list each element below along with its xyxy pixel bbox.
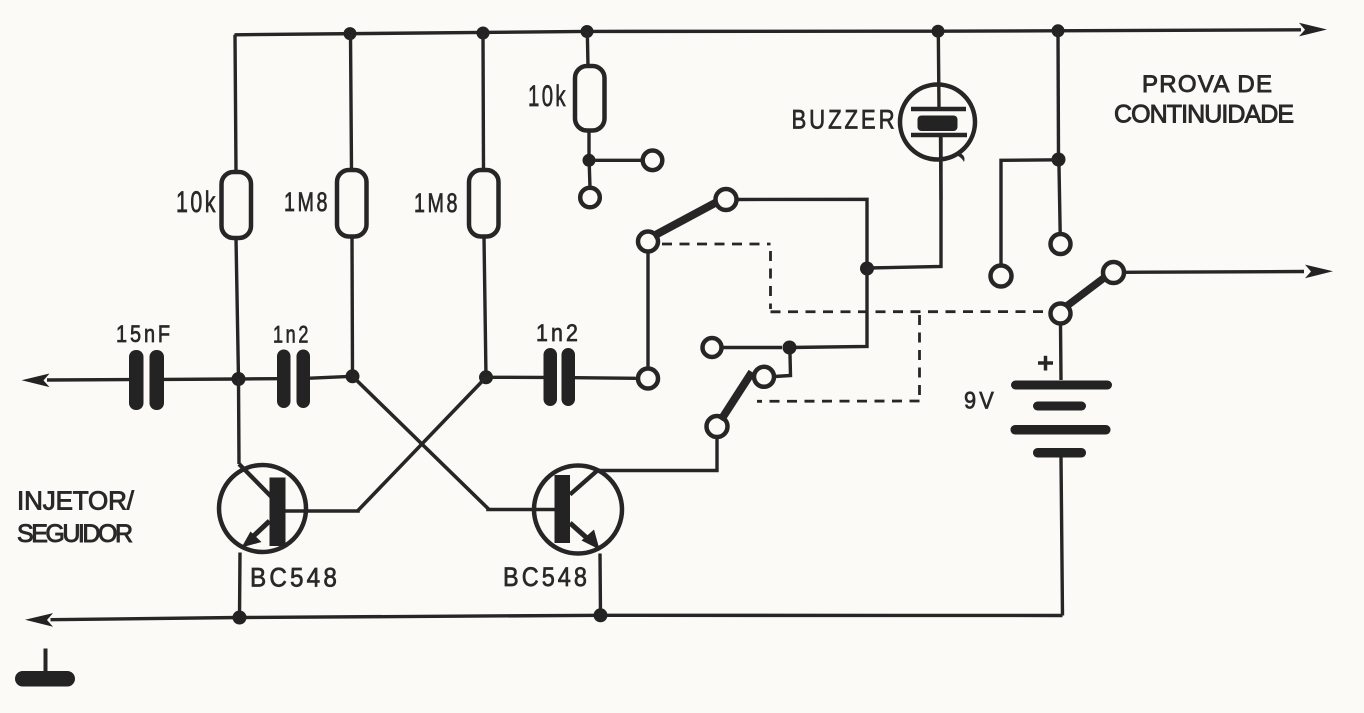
- Q1 emitter lead: [252, 521, 270, 538]
- wire: C2 to node B1: [310, 376, 353, 378]
- wire: top supply rail: [235, 30, 1302, 35]
- junction: top rail / right branch: [1052, 24, 1065, 37]
- wire: buzzer bottom lead: [939, 135, 943, 200]
- wire: Q1 emitter to bottom rail: [238, 553, 242, 618]
- junction: top rail / R4: [581, 25, 594, 38]
- battery B1 9V: [1011, 356, 1113, 458]
- wire: junction to S1a right contact: [595, 159, 643, 162]
- svg-text:15nF: 15nF: [116, 321, 173, 348]
- wire: top rail to R3: [481, 33, 485, 170]
- Q1 body circle: [219, 465, 306, 552]
- switch S1b pole: [707, 416, 728, 437]
- wire: node B2 to C3: [486, 376, 544, 380]
- resistor 10k (left, R1): [222, 172, 252, 238]
- junction: node B2 (R3 / C3 / Q1 base link): [479, 370, 493, 384]
- switch S1b lever: [721, 372, 752, 420]
- junction: node B1 (R2 / C2 / Q2 base link): [346, 369, 360, 383]
- svg-text:CONTINUIDADE: CONTINUIDADE: [1114, 101, 1294, 129]
- Q2 emitter arrowhead: [582, 530, 600, 550]
- wire: S1a pole down to C3 output node: [646, 252, 649, 369]
- svg-text:10k: 10k: [528, 80, 568, 113]
- switch S1c contact (upper): [1051, 234, 1071, 254]
- wire: C3 to output terminal: [575, 376, 638, 380]
- wire: node left and down to S1c left contact: [1001, 160, 1059, 265]
- Q2 body circle: [534, 466, 622, 554]
- wire: R4 to switch S1a contact node: [587, 131, 590, 161]
- switch S1c pole: [1051, 304, 1071, 324]
- arrow: top rail right output: [1299, 23, 1327, 37]
- node: C3 output terminal: [638, 369, 658, 389]
- buzzer piezo element: [918, 116, 958, 132]
- svg-text:1n2: 1n2: [536, 320, 581, 347]
- switch S1c contact (left): [991, 266, 1012, 287]
- junction: bottom rail / Q1 emitter: [233, 611, 247, 625]
- mechanical gang dashed link S1a-S1b-S1c: [662, 244, 1048, 401]
- junction: top rail / R2: [344, 27, 357, 40]
- switch S1c lever: [1066, 278, 1105, 308]
- resistor 1M8 (R2): [337, 170, 367, 237]
- wire: node down to S1c upper contact: [1059, 166, 1060, 234]
- arrow: bottom rail left output: [25, 613, 53, 627]
- battery plus sign: [1038, 361, 1053, 365]
- transistor Q2 BC548: [534, 466, 622, 616]
- switch S1a pole: [638, 232, 658, 252]
- battery plate long 1: [1011, 381, 1112, 390]
- scan speck (decorative ink mark below buzzer): [958, 153, 965, 162]
- wire: top rail to buzzer: [932, 25, 945, 38]
- wire: battery negative to bottom rail: [1061, 458, 1063, 616]
- resistor 1M8 (R3): [469, 170, 499, 237]
- Q1 emitter arrowhead: [242, 532, 262, 548]
- Q2 base bar: [555, 475, 571, 543]
- svg-text:BUZZER: BUZZER: [792, 105, 898, 135]
- battery plate long 2: [1011, 425, 1111, 435]
- junction: bottom rail / Q2 emitter: [594, 608, 608, 622]
- transistor Q1 BC548: [219, 379, 306, 618]
- battery plate short 1: [1033, 402, 1086, 411]
- Q1 collector lead: [239, 464, 272, 497]
- switch S1a lever: [654, 203, 717, 237]
- switch S1a contact (right): [643, 151, 663, 171]
- wire: node down to S1b branch: [790, 269, 868, 348]
- capacitor 1n2 (C3): [544, 348, 576, 406]
- switch S1a throw contact: [716, 189, 737, 210]
- wire: node down to S1b throw contact: [775, 354, 791, 377]
- wire: junction to S1a lower contact: [588, 166, 592, 188]
- svg-text:SEGUIDOR: SEGUIDOR: [17, 520, 133, 548]
- junction: S1b contact node: [783, 341, 797, 355]
- junction: R1 / C1 / C2 / Q1 collector: [232, 372, 246, 386]
- junction: R4 / S1a contacts: [583, 154, 596, 167]
- junction: top rail / R3: [477, 27, 490, 40]
- wire: S1a throw to buzzer branch: [737, 199, 868, 268]
- wire: R1 to capacitor row: [236, 238, 239, 379]
- svg-text:PROVA DE: PROVA DE: [1142, 71, 1272, 98]
- wire: cross coupling node B1 to Q2 base: [353, 376, 555, 509]
- buzzer body circle: [900, 85, 975, 160]
- svg-text:1n2: 1n2: [273, 322, 311, 349]
- buzzer bottom plate: [911, 133, 967, 138]
- wire: R3 to node B2: [484, 237, 486, 378]
- wire: S1c pole to battery positive: [1059, 324, 1063, 381]
- resistor 10k (top middle, R4): [575, 66, 605, 131]
- svg-text:9V: 9V: [964, 388, 997, 415]
- svg-text:10k: 10k: [176, 186, 218, 219]
- wire: S1c throw to probe output: [1124, 270, 1304, 274]
- wire: top rail to R4: [586, 32, 590, 67]
- junction: S1c contacts node: [1052, 153, 1066, 167]
- switch S1b contact (left): [703, 338, 722, 357]
- wire: cross coupling node B2 to Q1 base: [286, 377, 487, 511]
- Q2 collector lead: [570, 470, 599, 495]
- ground: [15, 649, 75, 687]
- wire: R2 to node B1: [350, 237, 354, 377]
- wire: top rail to R1: [235, 35, 236, 172]
- svg-text:INJETOR/: INJETOR/: [17, 486, 135, 516]
- capacitor 1n2 (C2): [277, 350, 310, 409]
- wire: node to buzzer bottom: [867, 135, 941, 268]
- Q2 emitter lead: [570, 523, 588, 539]
- wire: left output to C1: [47, 378, 129, 382]
- Q1 base bar: [270, 478, 286, 547]
- svg-text:BC548: BC548: [250, 563, 340, 593]
- svg-text:1M8: 1M8: [414, 188, 460, 218]
- wire: Q2 emitter to bottom rail: [598, 554, 602, 616]
- wire: top rail down to S1c node: [1056, 31, 1060, 160]
- wire: bottom rail: [51, 615, 1063, 619]
- arrow: left output (injector): [22, 374, 50, 388]
- wire: C1 to junction: [164, 377, 239, 381]
- buzzer top plate: [911, 107, 966, 112]
- junction: buzzer branch node: [860, 262, 874, 276]
- svg-text:BC548: BC548: [503, 562, 590, 592]
- battery plate short 2: [1033, 448, 1086, 458]
- wire: junction to C2: [245, 377, 277, 381]
- wire: node to S1b left contact: [722, 346, 782, 349]
- buzzer BZ1: [900, 25, 975, 200]
- wire: junction down to Q1 collector: [237, 379, 241, 464]
- wire: top rail to R2: [351, 34, 352, 170]
- switch S1a contact (lower): [580, 188, 600, 208]
- capacitor 15nF (C1): [129, 350, 164, 410]
- wire: S1b pole to Q2 collector: [599, 437, 718, 471]
- arrow: probe output right: [1305, 265, 1333, 279]
- switch S1c throw contact: [1103, 262, 1124, 283]
- switch S1b throw contact: [754, 367, 774, 387]
- svg-text:1M8: 1M8: [284, 187, 330, 217]
